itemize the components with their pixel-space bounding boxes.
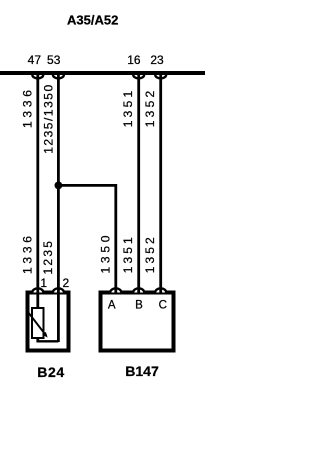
svg-text:47: 47 [28, 53, 42, 67]
wire 1352 from terminal 23 to B147 pin C [159, 73, 162, 294]
svg-text:B: B [135, 300, 143, 312]
wire 1336 from terminal 47 to B24 pin 1 [36, 73, 39, 342]
connector cup at bus terminal 47 [32, 75, 43, 78]
junction dot on wire 1235/1350 [55, 182, 63, 190]
svg-text:2: 2 [62, 276, 69, 290]
bus bar of A35/A52 [0, 71, 205, 75]
box B24 outline [28, 293, 69, 351]
B24 internal bottom wire [37, 340, 59, 342]
svg-text:A: A [108, 300, 116, 312]
svg-text:23: 23 [150, 53, 164, 67]
svg-text:53: 53 [47, 53, 61, 67]
svg-text:A35/A52: A35/A52 [67, 13, 118, 28]
connector cup at bus terminal 23 [155, 75, 166, 78]
connector cup at bus terminal 53 [53, 75, 64, 78]
connector cup at B24 pin 2 [53, 288, 64, 292]
svg-text:1235: 1235 [41, 241, 55, 275]
arrowhead of variable-resistor arrow [43, 332, 48, 338]
branch wire 1350 from junction to B147 pin A [58, 185, 116, 293]
svg-text:16: 16 [127, 53, 141, 67]
svg-text:B24: B24 [37, 364, 64, 380]
svg-text:C: C [159, 300, 167, 312]
variable-resistor arrow through resistor [29, 313, 47, 336]
connector cup at B147 pin B [133, 288, 144, 292]
wire 1351 from terminal 16 to B147 pin B [137, 73, 140, 294]
connector cup at bus terminal 16 [133, 75, 144, 78]
svg-text:1235/1350: 1235/1350 [42, 84, 56, 153]
box B147 outline [101, 293, 174, 351]
connector cup at B147 pin A [110, 288, 121, 292]
svg-text:B147: B147 [125, 363, 159, 379]
connector cup at B147 pin C [155, 288, 166, 292]
wire 1235 from terminal 53 to B24 pin 2 [57, 73, 60, 342]
connector cup at B24 pin 1 [32, 288, 43, 292]
resistor symbol inside B24 [32, 308, 44, 338]
svg-text:1: 1 [40, 276, 47, 290]
